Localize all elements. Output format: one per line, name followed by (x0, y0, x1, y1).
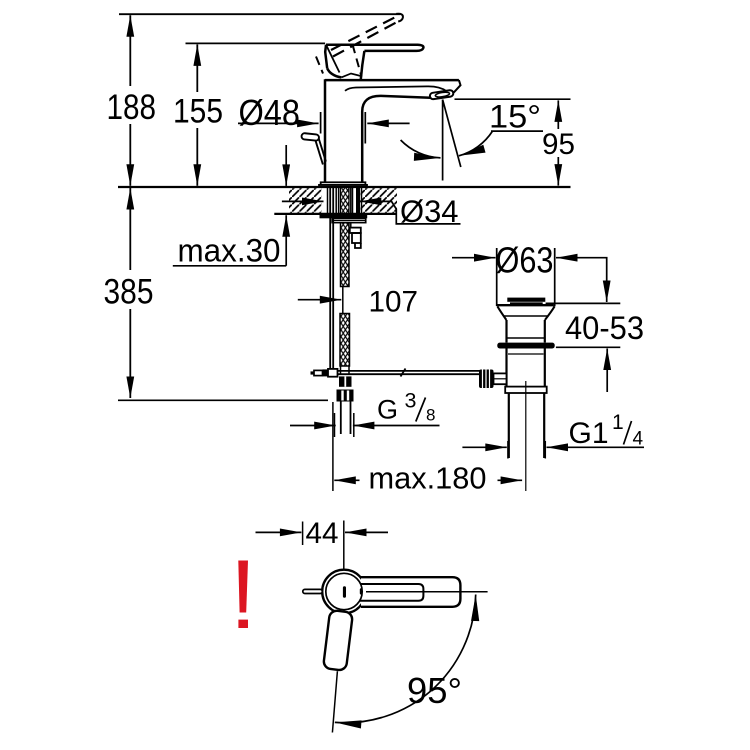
faucet base plates (319, 182, 367, 187)
svg-text:188: 188 (107, 87, 157, 127)
faucet body and spout (325, 79, 461, 182)
svg-text:44: 44 (306, 517, 339, 550)
95-degree swing arc callout (335, 595, 476, 723)
svg-text:95: 95 (542, 128, 575, 161)
dimension 44 (handle offset, top view) (256, 517, 389, 576)
threaded shank through deck (328, 187, 362, 370)
svg-text:1: 1 (612, 411, 624, 434)
red exclamation mark (238, 561, 248, 629)
svg-text:15°: 15° (489, 99, 541, 135)
svg-text:Ø63: Ø63 (496, 239, 554, 280)
svg-text:3: 3 (405, 389, 417, 413)
mixer lever (solid position) (325, 45, 423, 80)
svg-text:Ø34: Ø34 (400, 193, 459, 229)
pop-up waste drain body (497, 298, 554, 491)
dimension G1 1/4 (waste thread) (462, 411, 644, 459)
max-height reference line (raised lever) (119, 13, 400, 15)
lever-top reference line (186, 42, 326, 44)
mounting deck cross-section with hatching (118, 187, 571, 214)
pop-up pull rod knob (301, 133, 326, 165)
svg-text:4: 4 (633, 429, 644, 450)
knurled linkage knob on drain (479, 370, 507, 389)
dimension 188 (overall height) (107, 15, 157, 186)
svg-text:G1: G1 (569, 417, 609, 450)
svg-text:95°: 95° (407, 670, 462, 711)
mounting washer and locknut (320, 215, 368, 223)
svg-text:107: 107 (369, 286, 419, 319)
hose end fitting (350, 222, 361, 248)
svg-text:G: G (377, 395, 398, 425)
braided supply hose (340, 223, 350, 366)
handle top view (ball, lever arm, rotated arm) (303, 570, 488, 733)
svg-text:155: 155 (173, 93, 223, 131)
dimension 155 (lever height) (173, 44, 223, 185)
svg-text:max.30: max.30 (178, 233, 281, 269)
svg-text:40-53: 40-53 (565, 310, 644, 346)
dimension O48 (body diameter) (238, 92, 410, 144)
dimension O63 and 40-53 (waste flange) (452, 239, 644, 392)
svg-text:Ø48: Ø48 (239, 92, 301, 133)
dimension max.30 (deck thickness) (173, 145, 286, 269)
pop-up linkage horizontal rod and clevis (311, 369, 480, 377)
water stream and 15-degree angle callout (401, 99, 543, 181)
dimension max.180 (hose to drain distance) (333, 402, 522, 496)
svg-text:385: 385 (104, 272, 154, 312)
dimension 385 (height below deck) (104, 188, 329, 400)
dimension O34 (shank hole diameter) (282, 193, 461, 229)
svg-text:max.180: max.180 (369, 462, 487, 496)
mixer lever raised (dashed position) (316, 14, 403, 77)
G3/8 compression fitting and nut (337, 366, 354, 434)
svg-text:8: 8 (426, 406, 435, 425)
dimension 107 (hose length callout) (298, 286, 418, 319)
dimension G3/8 (supply thread) (290, 389, 440, 437)
dimension 95 (spout outlet height) (455, 99, 576, 185)
